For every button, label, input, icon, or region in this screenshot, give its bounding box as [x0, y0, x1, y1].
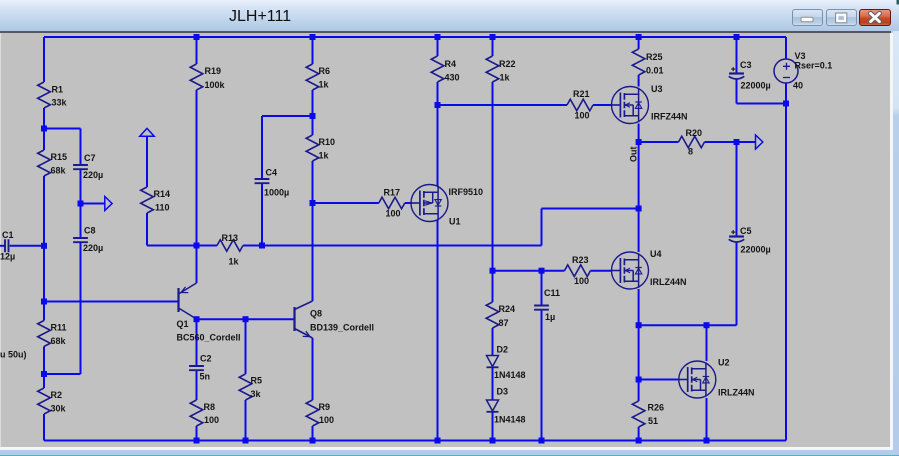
resistor R26 [632, 401, 664, 427]
mosfet U4 [612, 249, 687, 289]
svg-text:1µ: 1µ [545, 312, 555, 322]
wire U4 source node to U2 gate node [638, 325, 640, 379]
svg-text:R6: R6 [319, 66, 331, 76]
wire top supply rail +40V [44, 36, 786, 38]
junction (312.5,37) [310, 34, 316, 40]
svg-text:R25: R25 [646, 52, 663, 62]
wire V3 plus to rail [785, 37, 787, 59]
transistor Q8 [295, 301, 375, 338]
svg-text:C2: C2 [200, 354, 212, 364]
junction (312.5,203) [310, 200, 316, 206]
wire D2 to D3 [492, 368, 494, 400]
svg-text:R21: R21 [573, 89, 590, 99]
svg-text:1000µ: 1000µ [264, 188, 289, 198]
junction (706.5,440.5) [704, 438, 710, 444]
wire R22 top lead [492, 37, 494, 56]
wire R8 to ground rail [196, 426, 198, 441]
wire feedback node to R13 [197, 245, 218, 247]
svg-text:R5: R5 [251, 376, 263, 386]
wire Out node to R20 [639, 141, 679, 143]
wire R24 to D2 [492, 328, 494, 356]
junction (786,103.5) [783, 101, 789, 107]
svg-text:R20: R20 [686, 128, 703, 138]
wire R11 to R2 [43, 347, 45, 389]
resistor R24 [486, 302, 515, 328]
svg-text:R2: R2 [51, 390, 63, 400]
svg-text:C3: C3 [740, 60, 752, 70]
junction (80.5,203.5) [78, 201, 84, 207]
wire C11 to ground rail [541, 310, 543, 441]
svg-text:R4: R4 [445, 59, 457, 69]
wire Out to U4 drain [638, 209, 640, 253]
junction (541.5,440.5) [539, 438, 545, 444]
wire R25 top lead [638, 37, 640, 49]
junction (196.5,37) [194, 34, 200, 40]
svg-text:R22: R22 [499, 59, 516, 69]
junction (245.5,319.2) [243, 316, 249, 322]
mosfet U2 [679, 358, 755, 399]
svg-text:100: 100 [204, 415, 219, 425]
svg-text:Q1: Q1 [177, 319, 189, 329]
wire R5 to ground rail [245, 400, 247, 441]
wire U2 gate node to R26 [638, 380, 640, 402]
svg-text:V3: V3 [795, 51, 806, 61]
junction (492.5,37) [490, 34, 496, 40]
wire to output port arrow [81, 203, 105, 205]
resistor R10 [306, 135, 335, 161]
resistor R15 [38, 150, 67, 176]
junction (44,128.5) [41, 126, 47, 132]
junction (196.5,245.5) [194, 243, 200, 249]
svg-text:D2: D2 [497, 344, 509, 354]
close icon [871, 13, 880, 21]
svg-text:R14: R14 [154, 189, 171, 199]
svg-text:R19: R19 [205, 66, 222, 76]
svg-text:IRLZ44N: IRLZ44N [650, 277, 687, 287]
wire D3 to ground rail [492, 412, 494, 440]
svg-text:U4: U4 [650, 249, 662, 259]
capacitor C8 [73, 226, 103, 254]
svg-text:40: 40 [793, 81, 803, 91]
wire Q1 collector to Q8 base [197, 318, 295, 320]
wire bottom ground rail [44, 440, 786, 442]
capacitor C1 [0, 230, 15, 262]
wire C8 bottom to R11/R2 node [44, 373, 81, 375]
wire C1 to input node [10, 245, 44, 247]
junction (196.5,440.5) [194, 438, 200, 444]
wire R19 top lead [196, 37, 198, 64]
svg-text:U3: U3 [651, 84, 663, 94]
wire R22 down to R24 node [492, 82, 494, 271]
wire V3 return to ground rail [785, 104, 787, 441]
junction (638.6,37) [636, 34, 642, 40]
transistor Q1 [177, 283, 241, 343]
svg-text:430: 430 [445, 73, 460, 83]
resistor R11 [38, 321, 67, 347]
svg-text:30k: 30k [51, 404, 67, 414]
junction (262,245.5) [259, 243, 265, 249]
wire U2 drain [706, 325, 708, 361]
svg-text:BD139_Cordell: BD139_Cordell [310, 323, 374, 333]
svg-text:110: 110 [155, 203, 170, 213]
mosfet U1 [411, 185, 483, 227]
svg-text:220µ: 220µ [83, 170, 103, 180]
maximize button [826, 9, 857, 27]
junction (492.5,440.5) [490, 438, 496, 444]
svg-text:68k: 68k [51, 336, 67, 346]
wire R24 node to R23 [493, 270, 565, 272]
wire left bias column upper [43, 37, 45, 82]
input port arrow up [140, 128, 154, 136]
wire C7 to C8 node [80, 169, 82, 238]
title text [229, 8, 291, 26]
output port arrow left [105, 197, 112, 211]
svg-text:C4: C4 [266, 168, 278, 178]
wire Q1 base [44, 301, 179, 303]
capacitor C11 [534, 288, 560, 322]
junction (196.5,319.2) [194, 316, 200, 322]
junction (638.6,142) [636, 139, 642, 145]
wire R4 to U1 source node [437, 82, 439, 105]
resistor R20 [679, 128, 705, 157]
wire R20 to speaker node [705, 141, 737, 143]
title separator line [0, 31, 891, 34]
junction (638.6,440.5) [636, 438, 642, 444]
wire R23 to U4 gate [591, 270, 613, 272]
junction (638.6,325.2) [636, 322, 642, 328]
svg-text:R11: R11 [51, 323, 67, 333]
wire R9 to ground rail [312, 426, 314, 441]
wire feedback riser [541, 209, 543, 246]
wire V3 minus down [785, 83, 787, 104]
capacitor C4 [255, 168, 290, 198]
svg-text:87: 87 [499, 318, 509, 328]
junction (312.5,440.5) [310, 438, 316, 444]
svg-text:IRF9510: IRF9510 [449, 187, 484, 197]
wire Q8 emitter to R9 [312, 338, 314, 400]
junction (312.5,116) [310, 113, 316, 119]
wire C11 top lead [541, 271, 543, 306]
wire C5 down [736, 242, 738, 326]
svg-text:51: 51 [648, 416, 658, 426]
resistor R13 [217, 233, 243, 267]
svg-text:1k: 1k [319, 80, 330, 90]
wire Out node down [638, 142, 640, 209]
wire C4 to R13 net [261, 183, 263, 245]
wire U2 source to ground rail [706, 398, 708, 441]
resistor R22 [486, 56, 515, 83]
wire feedback node to Q1 emitter [196, 246, 198, 284]
wire R21 to U3 gate [593, 104, 612, 106]
svg-text:C5: C5 [740, 226, 752, 236]
svg-text:100k: 100k [205, 80, 226, 90]
mosfet U3 [612, 84, 688, 124]
svg-text:100: 100 [319, 415, 334, 425]
wire C3 bottom lead [736, 79, 738, 103]
resistor R8 [190, 400, 219, 426]
wire R19 to feedback node [196, 90, 198, 246]
junction (638.6,379.5) [636, 377, 642, 383]
wire speaker node to port arrow [737, 141, 756, 143]
svg-text:Rser=0.1: Rser=0.1 [795, 61, 833, 71]
wire U1 drain to ground rail [437, 220, 439, 441]
window corner artifact [897, 0, 899, 5]
node Out label [629, 147, 639, 163]
svg-text:1k: 1k [319, 151, 330, 161]
diode D3 [487, 387, 526, 425]
svg-text:100: 100 [574, 276, 589, 286]
wire R6 top lead [312, 37, 314, 64]
svg-text:12µ: 12µ [0, 252, 15, 262]
junction (44,374) [41, 371, 47, 377]
wire C4 tap to R6/R10 node [262, 115, 313, 117]
svg-text:R24: R24 [499, 304, 516, 314]
wire C1 input stub [0, 245, 5, 247]
wire R17 to U1 gate [405, 202, 412, 204]
junction (245.5,440.5) [243, 438, 249, 444]
wire R25 to U3 drain [638, 75, 640, 87]
svg-text:1N4148: 1N4148 [494, 370, 526, 380]
svg-text:22000µ: 22000µ [741, 245, 771, 255]
wire C5 top lead [736, 142, 738, 237]
wire U2 gate tap [639, 379, 679, 381]
resistor R14 [141, 187, 170, 213]
svg-text:1N4148: 1N4148 [494, 415, 526, 425]
svg-text:U1: U1 [449, 217, 461, 227]
svg-text:33k: 33k [52, 98, 68, 108]
svg-text:5n: 5n [200, 372, 211, 382]
wire U3 source to Out node [638, 124, 640, 143]
wire C3 top lead [736, 37, 738, 74]
wire C4 riser [261, 116, 263, 179]
resistor R21 [567, 89, 593, 121]
svg-text:1k: 1k [500, 73, 511, 83]
svg-text:U2: U2 [718, 358, 730, 368]
wire R24 top lead [492, 271, 494, 302]
svg-text:68k: 68k [51, 166, 67, 176]
resistor R2 [38, 388, 67, 414]
spice directive text [0, 350, 27, 360]
wire R2 to ground rail [43, 414, 45, 441]
svg-text:R8: R8 [204, 402, 216, 412]
wire node A column to R11 [43, 176, 45, 321]
svg-text:R9: R9 [319, 402, 331, 412]
svg-text:22000µ: 22000µ [741, 81, 771, 91]
resistor R25 [632, 49, 663, 76]
wire U1 source [437, 105, 439, 187]
wire R14 bottom [146, 213, 148, 246]
resistor R4 [431, 56, 459, 83]
output port arrow right [756, 135, 763, 149]
wire U1 gate net [313, 202, 379, 204]
diode D2 [487, 344, 526, 380]
wire R6 to R10 [312, 90, 314, 135]
junction (492.5,270.7) [490, 268, 496, 274]
junction (437.5,37) [435, 34, 441, 40]
title bar [0, 0, 899, 31]
resistor R6 [306, 64, 330, 90]
wire port to R14 [146, 136, 148, 187]
svg-text:100: 100 [575, 111, 590, 121]
svg-text:R17: R17 [384, 188, 401, 198]
wire R14 to feedback node [147, 245, 197, 247]
resistor R17 [379, 188, 405, 219]
svg-text:D3: D3 [497, 387, 509, 397]
wire C8 bottom down [80, 242, 82, 374]
minimize icon [801, 17, 813, 22]
capacitor C2 [189, 354, 211, 382]
svg-text:R26: R26 [648, 403, 665, 413]
svg-text:3k: 3k [251, 389, 262, 399]
svg-text:220µ: 220µ [83, 243, 103, 253]
resistor R19 [190, 64, 225, 90]
wire R5 top lead [245, 319, 247, 374]
svg-text:C8: C8 [84, 226, 96, 236]
junction (437.5,440.5) [435, 438, 441, 444]
svg-text:Out: Out [629, 147, 639, 163]
svg-text:IRFZ44N: IRFZ44N [651, 112, 688, 122]
wire node A branch to C7 [44, 128, 81, 130]
svg-text:IRLZ44N: IRLZ44N [718, 388, 755, 398]
resistor R1 [38, 82, 68, 108]
wire U4 source down [638, 289, 640, 325]
wire Q1 collector to C2 [196, 319, 198, 366]
svg-text:C11: C11 [544, 288, 560, 298]
wire C3 to V3 minus node [737, 103, 787, 105]
svg-text:u 50u): u 50u) [0, 350, 27, 360]
wire C5 return [639, 324, 737, 326]
wire C2 to R8 [196, 370, 198, 400]
wire feedback to Out node [542, 208, 639, 210]
wire C7 lead down [80, 129, 82, 166]
svg-text:Q8: Q8 [310, 309, 322, 319]
resistor R23 [565, 255, 591, 286]
capacitor C3 [729, 60, 771, 91]
maximize icon [836, 13, 847, 23]
svg-text:R1: R1 [52, 85, 64, 95]
svg-text:BC560_Cordell: BC560_Cordell [177, 333, 241, 343]
wire R4 top lead [437, 37, 439, 56]
junction (541.5,270.7) [539, 268, 545, 274]
junction (736.5,142) [734, 139, 740, 145]
wire U1 source node to R21 [438, 104, 568, 106]
junction (44,301.5) [41, 299, 47, 305]
svg-text:R23: R23 [572, 255, 589, 265]
capacitor C7 [73, 153, 103, 180]
resistor R9 [306, 400, 334, 426]
capacitor C5 [729, 226, 771, 255]
resistor R5 [239, 374, 262, 400]
svg-text:1k: 1k [229, 257, 240, 267]
junction (736.5,37) [734, 34, 740, 40]
svg-text:R13: R13 [222, 233, 239, 243]
close button [859, 9, 891, 27]
svg-text:8: 8 [688, 147, 693, 157]
wire R1 to node A [43, 108, 45, 150]
svg-text:R15: R15 [51, 152, 68, 162]
junction (44,245.8) [41, 243, 47, 249]
svg-text:C1: C1 [2, 230, 14, 240]
wire R13 to C4 node [243, 245, 542, 247]
junction (437.5,105) [435, 102, 441, 108]
junction (638.6,208.5) [636, 206, 642, 212]
svg-text:100: 100 [386, 209, 401, 219]
junction (706.5,325.2) [704, 322, 710, 328]
svg-text:R10: R10 [319, 137, 336, 147]
svg-text:0.01: 0.01 [646, 66, 664, 76]
voltage source V3 [774, 51, 832, 91]
minimize button [792, 9, 823, 27]
svg-text:C7: C7 [84, 153, 96, 163]
wire R26 to ground rail [638, 427, 640, 441]
wire R10 to Q8 collector [312, 161, 314, 301]
